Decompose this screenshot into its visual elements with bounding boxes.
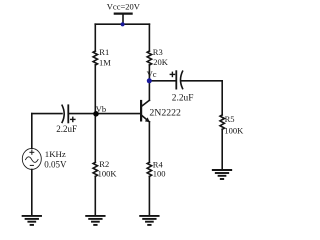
node Vb junction — [93, 111, 99, 117]
resistor R3 — [147, 51, 151, 65]
wire left branch upper — [94, 24, 96, 51]
wire emitter down — [148, 122, 150, 162]
wire base — [95, 113, 141, 115]
svg-text:R3: R3 — [153, 47, 163, 57]
svg-text:Vcc=20V: Vcc=20V — [107, 1, 141, 11]
wire top rail — [95, 23, 149, 25]
svg-text:2.2uF: 2.2uF — [56, 124, 77, 134]
AC source V1 — [22, 148, 41, 169]
svg-text:Vc: Vc — [147, 69, 157, 79]
wire R3 to collector — [148, 65, 150, 100]
wire R2 to ground — [94, 176, 96, 215]
plus sign C2 — [170, 72, 174, 76]
svg-text:R5: R5 — [225, 114, 235, 124]
capacitor C1 2.2uF — [62, 105, 68, 122]
ground (source) — [23, 216, 41, 225]
wire C2 to R5 branch — [182, 80, 223, 82]
svg-text:100K: 100K — [98, 169, 118, 179]
svg-text:2.2uF: 2.2uF — [172, 93, 194, 103]
svg-text:1KHz: 1KHz — [45, 149, 66, 159]
resistor R4 — [147, 162, 151, 176]
svg-text:R1: R1 — [99, 47, 109, 57]
svg-text:100K: 100K — [224, 126, 244, 136]
wire source branch down — [31, 114, 33, 149]
resistor R1 — [93, 51, 97, 65]
wire source to ground — [31, 170, 33, 216]
ground (R2) — [86, 216, 104, 225]
wire right branch upper — [148, 24, 150, 51]
ground (R5) — [213, 170, 231, 179]
wire R5 to ground — [221, 129, 223, 169]
wire left branch mid — [94, 65, 96, 162]
svg-text:R2: R2 — [99, 159, 109, 169]
wire Vc to C2 — [149, 80, 175, 82]
capacitor C2 2.2uF — [176, 71, 182, 88]
plus sign C1 — [71, 117, 75, 121]
svg-text:1M: 1M — [99, 57, 111, 67]
wire R5 branch down — [221, 81, 223, 115]
resistor R5 — [220, 115, 224, 129]
Vcc supply bar — [115, 14, 132, 25]
resistor R2 — [93, 162, 97, 176]
node Vc junction — [147, 78, 152, 83]
wire C1 to Vb — [68, 113, 95, 115]
svg-text:20K: 20K — [153, 57, 169, 67]
ground (R4) — [140, 216, 158, 225]
wire R4 to ground — [148, 176, 150, 215]
svg-text:100: 100 — [153, 169, 166, 179]
svg-text:2N2222: 2N2222 — [149, 108, 181, 119]
wire source top horizontal — [32, 113, 62, 115]
node Vcc junction — [121, 22, 125, 26]
transistor Q1 2N2222 — [141, 100, 150, 122]
svg-text:0.05V: 0.05V — [44, 160, 67, 170]
svg-text:Vb: Vb — [96, 104, 106, 114]
